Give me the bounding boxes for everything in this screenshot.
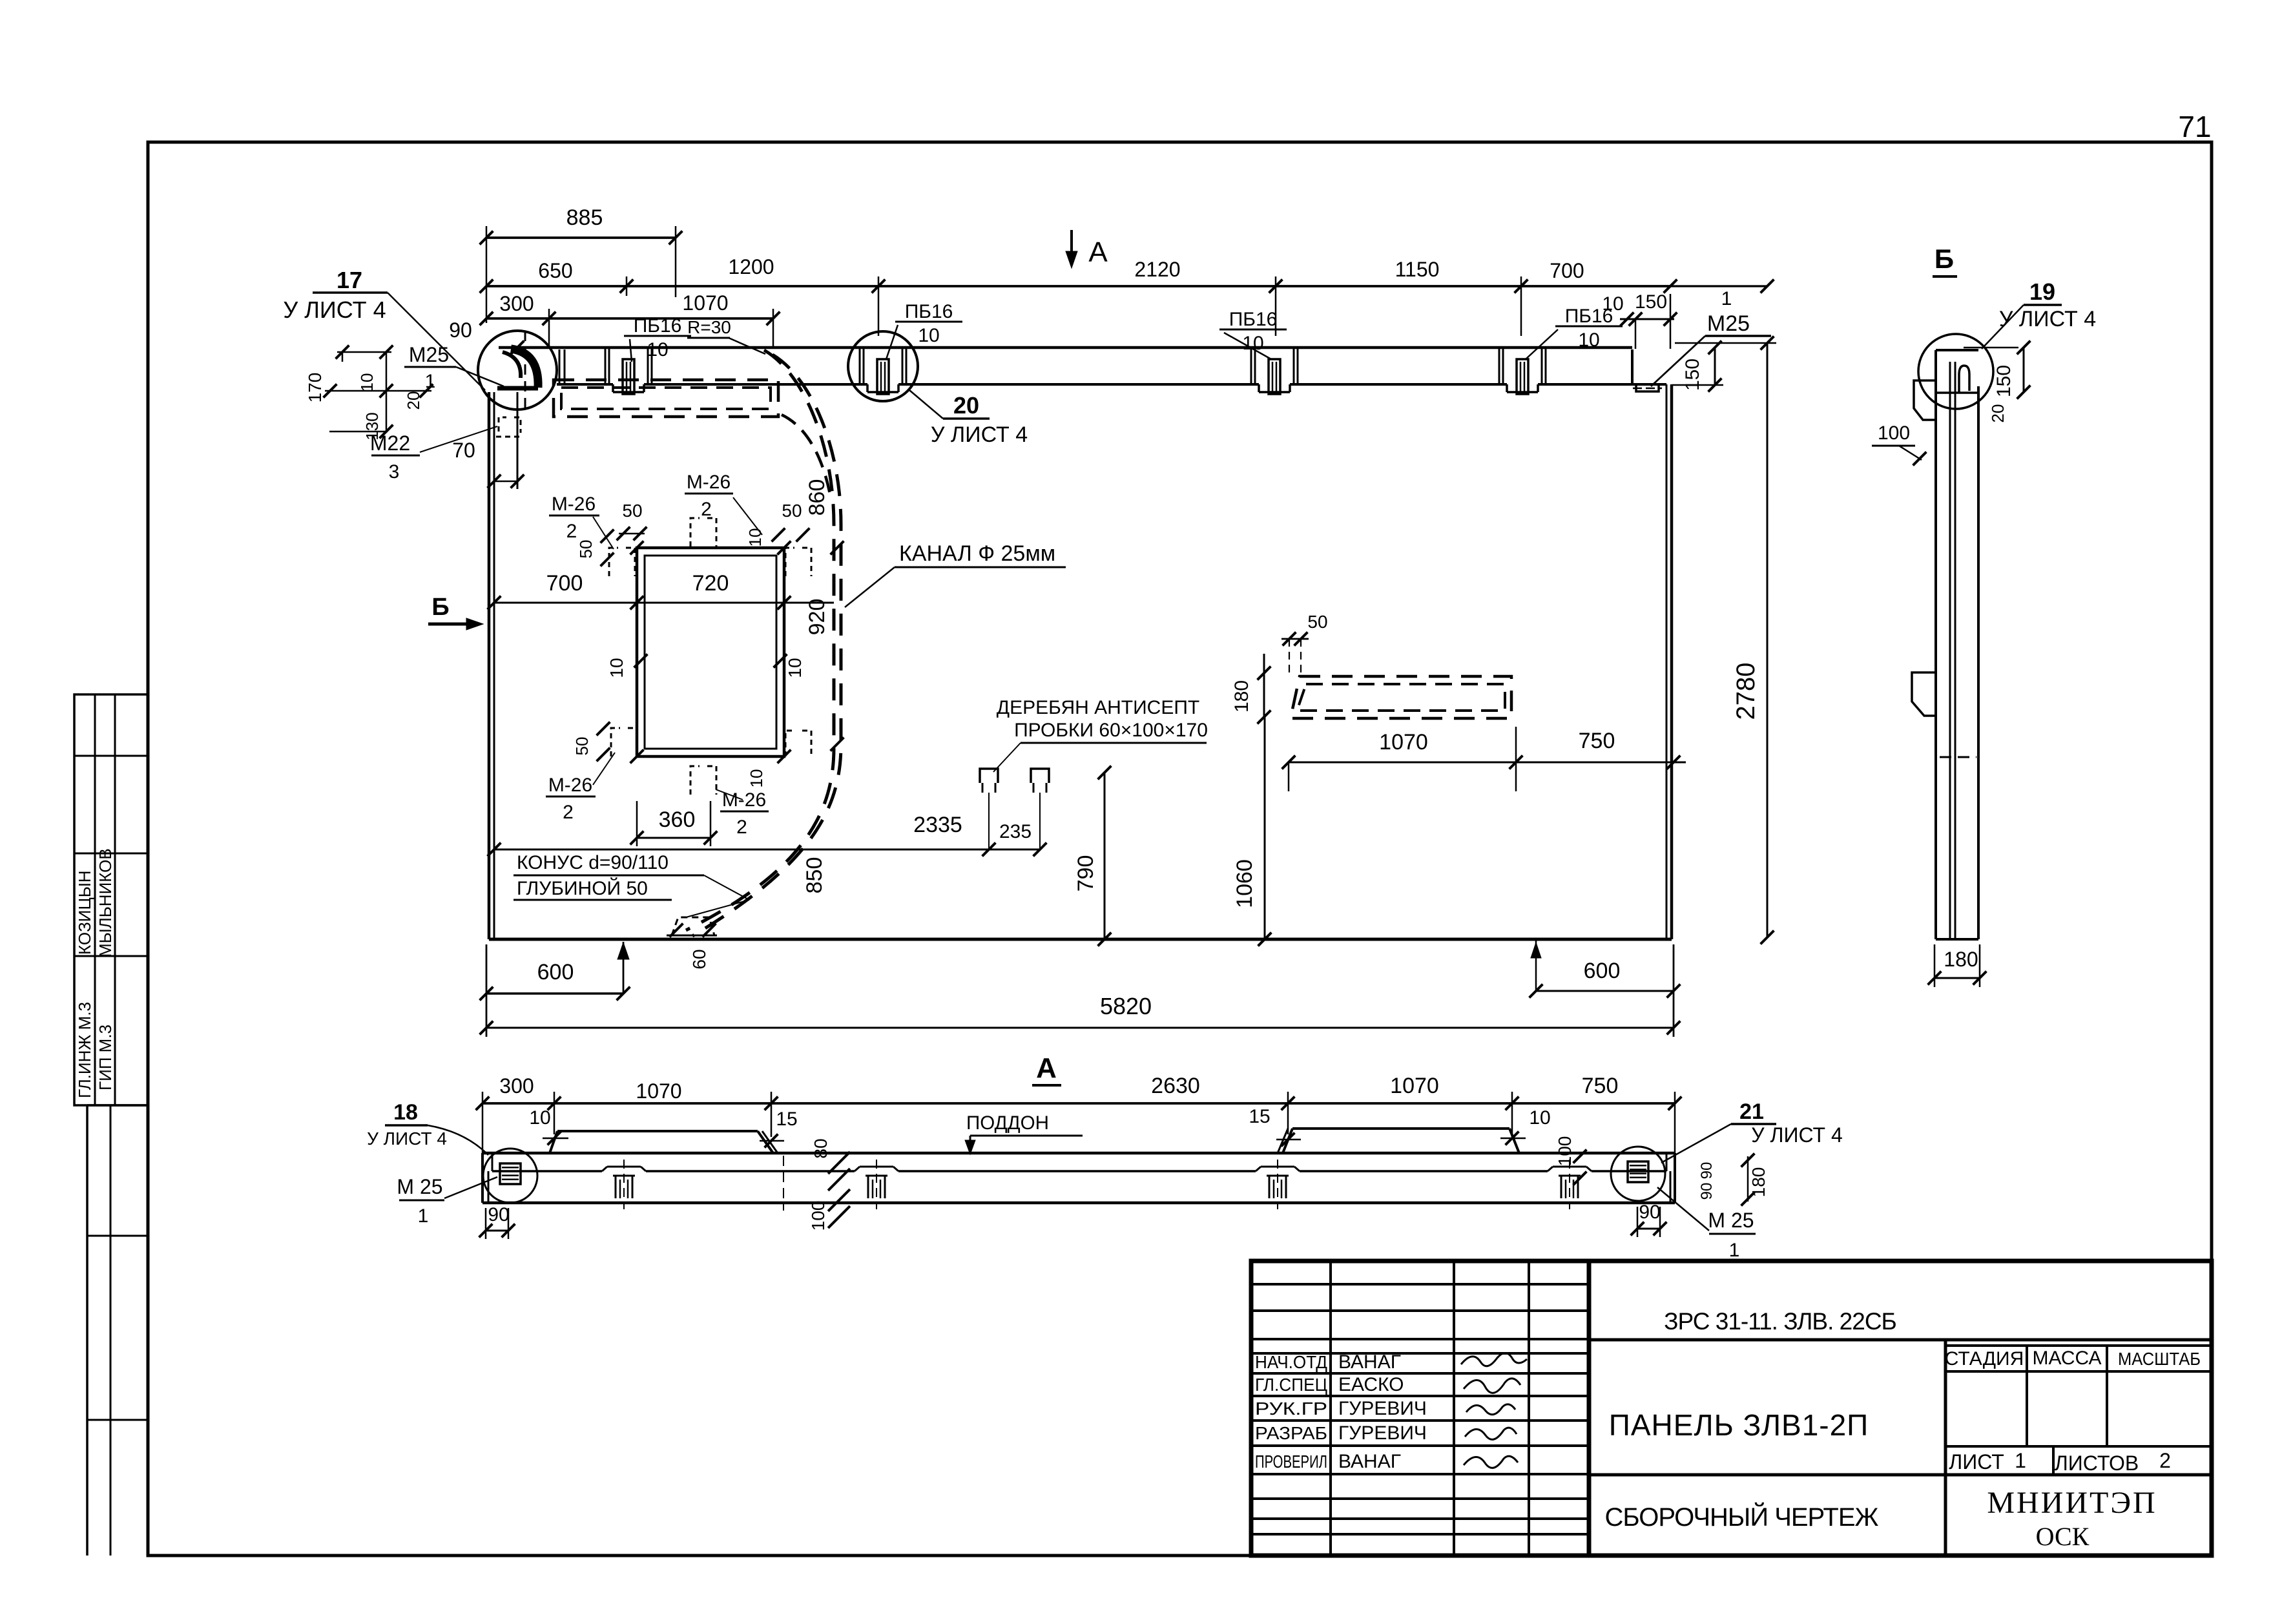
PB16 lintel studs on rim [605,349,607,384]
svg-text:М 25: М 25 [397,1175,442,1198]
wood plug 2 [1031,769,1049,783]
section B dim 150 [2023,348,2025,392]
svg-text:1070: 1070 [1390,1074,1439,1098]
svg-text:ГУРЕВИЧ: ГУРЕВИЧ [1338,1398,1427,1419]
svg-text:650: 650 [538,259,572,282]
svg-text:1: 1 [1721,288,1732,309]
section A M25 box right [1628,1161,1648,1182]
svg-text:ПБ16: ПБ16 [905,301,953,322]
page border frame [148,142,2212,1556]
svg-text:18: 18 [393,1100,418,1125]
svg-text:1150: 1150 [1395,258,1440,281]
svg-text:15: 15 [776,1109,797,1130]
svg-text:ГЛ.СПЕЦ: ГЛ.СПЕЦ [1255,1375,1327,1395]
svg-text:КОЗИЦЫН: КОЗИЦЫН [75,871,94,955]
svg-text:КОНУС d=90/110: КОНУС d=90/110 [517,852,669,873]
panel left edge [488,392,491,939]
svg-text:50: 50 [576,540,596,559]
svg-text:1: 1 [1729,1240,1740,1261]
svg-text:2335: 2335 [913,813,962,837]
svg-text:100: 100 [808,1201,828,1231]
svg-text:У ЛИСТ 4: У ЛИСТ 4 [367,1129,447,1149]
svg-text:2: 2 [736,817,747,838]
svg-text:1060: 1060 [1232,859,1257,908]
panel top edge [499,346,1632,349]
svg-text:ПАНЕЛЬ ЗЛВ1-2П: ПАНЕЛЬ ЗЛВ1-2П [1609,1408,1869,1442]
svg-text:МЫЛЬНИКОВ: МЫЛЬНИКОВ [96,848,115,957]
svg-text:10: 10 [918,325,939,346]
svg-text:600: 600 [537,960,574,984]
detail circle 21 [1611,1147,1665,1201]
svg-text:А: А [1088,236,1108,268]
svg-text:170: 170 [305,373,325,403]
svg-text:ДЕРЕБЯН АНТИСЕПТ: ДЕРЕБЯН АНТИСЕПТ [997,697,1200,718]
dim 2335 [494,849,989,851]
svg-text:ОСК: ОСК [2036,1522,2090,1551]
svg-text:У ЛИСТ 4: У ЛИСТ 4 [1999,307,2096,331]
section A right end [1674,1153,1676,1203]
svg-text:М25: М25 [409,343,449,366]
svg-text:1200: 1200 [728,255,774,278]
svg-text:2: 2 [563,802,574,823]
svg-text:10: 10 [607,658,627,678]
svg-text:300: 300 [499,292,534,315]
dim 600 left [486,992,623,994]
panel right edge [1666,384,1668,939]
svg-text:71: 71 [2178,110,2211,143]
svg-text:100: 100 [1878,422,1910,444]
svg-text:СБОРОЧНЫЙ ЧЕРТЕЖ: СБОРОЧНЫЙ ЧЕРТЕЖ [1605,1502,1879,1532]
svg-text:10: 10 [529,1107,550,1129]
section cut A arrow top [1070,230,1073,264]
svg-text:Б: Б [1935,244,1954,274]
svg-text:5820: 5820 [1100,993,1152,1019]
svg-text:90: 90 [1639,1202,1660,1223]
svg-text:У ЛИСТ 4: У ЛИСТ 4 [931,422,1028,447]
title right grid [1944,1340,1947,1556]
detail circle 18 [483,1149,537,1203]
dim 1060 vertical [1264,717,1266,939]
svg-text:300: 300 [499,1074,534,1098]
svg-text:20: 20 [1988,404,2007,423]
svg-text:1070: 1070 [1379,730,1428,755]
svg-text:70: 70 [452,439,475,462]
svg-text:720: 720 [692,571,729,596]
dim 600 right [1536,990,1674,992]
svg-text:2630: 2630 [1151,1074,1200,1098]
svg-text:1070: 1070 [636,1079,681,1103]
panel bottom edge [489,938,1672,941]
wood plug 1 [980,769,998,783]
micro dims 170-10-20-130 [337,351,391,353]
svg-text:ГЛ.ИНЖ М.3: ГЛ.ИНЖ М.3 [75,1002,94,1098]
detail circle 19 [1918,334,1993,409]
panel rim right end [1631,349,1634,384]
svg-text:НАЧ.ОТД: НАЧ.ОТД [1255,1352,1327,1372]
svg-text:10: 10 [1529,1107,1550,1129]
svg-text:10: 10 [785,658,805,678]
rim start verticals [559,349,561,384]
dim row 300-1070 [486,317,773,320]
svg-text:235: 235 [999,821,1032,842]
svg-text:21: 21 [1739,1099,1764,1124]
svg-text:2: 2 [2159,1449,2171,1472]
svg-text:1070: 1070 [682,291,728,315]
section A dim row [482,1102,1675,1105]
svg-text:80: 80 [811,1138,831,1158]
dim extension lines top [486,226,488,323]
svg-text:50: 50 [782,501,802,521]
title divider [1589,1473,2212,1477]
svg-text:ПРОВЕРИЛ: ПРОВЕРИЛ [1255,1452,1327,1472]
section A mid line [492,1170,602,1172]
section A pad 2 [1292,1127,1509,1130]
opening rect [637,548,784,756]
svg-text:ГУРЕВИЧ: ГУРЕВИЧ [1338,1422,1427,1444]
svg-text:150: 150 [1993,365,2015,397]
svg-text:10: 10 [1602,293,1623,315]
svg-text:19: 19 [2029,278,2055,305]
dashed pocket top-left [554,380,778,417]
dim 360 [637,837,711,839]
M-26 detail top-right box [785,548,811,576]
svg-text:20: 20 [404,391,423,410]
svg-text:150: 150 [1635,291,1667,313]
svg-text:50: 50 [622,501,642,521]
svg-text:ВАНАГ: ВАНАГ [1338,1451,1401,1472]
svg-text:СТАДИЯ: СТАДИЯ [1945,1348,2024,1369]
svg-text:790: 790 [1074,855,1098,892]
svg-text:10: 10 [745,528,765,547]
svg-text:20: 20 [953,392,979,419]
svg-text:3: 3 [389,461,400,483]
svg-text:150: 150 [1682,359,1703,391]
section A studs [615,1176,617,1198]
svg-text:10: 10 [1578,329,1599,351]
panel rim bottom line [557,383,613,386]
channel dashed curve [686,350,834,930]
svg-text:600: 600 [1584,959,1621,983]
svg-text:ГЛУБИНОЙ 50: ГЛУБИНОЙ 50 [517,877,648,899]
svg-text:КАНАЛ Ф 25мм: КАНАЛ Ф 25мм [899,541,1055,566]
signatures [1461,1353,1527,1366]
svg-text:1: 1 [2015,1449,2026,1472]
svg-text:50: 50 [1307,612,1327,632]
svg-text:2: 2 [566,521,577,542]
svg-text:ВАНАГ: ВАНАГ [1338,1351,1401,1373]
svg-text:МАССА: МАССА [2032,1348,2101,1369]
svg-text:М-26: М-26 [552,494,596,515]
dim 2780 [1767,343,1769,937]
svg-text:700: 700 [546,571,583,596]
svg-text:РУК.ГР: РУК.ГР [1255,1399,1327,1419]
svg-text:920: 920 [805,599,829,636]
svg-text:90: 90 [449,318,472,342]
svg-text:860: 860 [805,479,829,516]
svg-text:10: 10 [647,339,668,360]
svg-text:1: 1 [418,1205,429,1227]
svg-text:М22: М22 [370,432,410,455]
svg-text:У ЛИСТ 4: У ЛИСТ 4 [283,297,386,323]
dashed pocket right [1291,676,1511,718]
svg-text:МНИИТЭП: МНИИТЭП [1987,1486,2157,1520]
panel corner step line [517,392,519,489]
svg-text:90: 90 [1698,1162,1716,1180]
pocket dim 180 [1263,654,1265,717]
section A dim 90 right [1637,1228,1660,1230]
title block left grid [1251,1261,2212,1556]
dim 150 corner [1714,348,1716,385]
left stamp lower box [86,1105,88,1556]
svg-text:Б: Б [431,594,449,621]
svg-text:700: 700 [1550,259,1584,282]
svg-text:10: 10 [357,373,377,392]
detail circle 20 [848,331,918,401]
M-26 detail bot-right box [785,731,811,756]
dim 235 [989,849,1040,851]
svg-text:ЛИСТ: ЛИСТ [1949,1450,2004,1473]
svg-text:60: 60 [689,949,709,969]
section B panel strip [1936,349,1978,351]
svg-text:10: 10 [1242,333,1263,354]
svg-text:А: А [1036,1052,1057,1084]
left stamp upper box [74,694,148,1105]
svg-text:ПБ16: ПБ16 [634,315,682,337]
conus dashed detail [672,917,714,935]
svg-text:90: 90 [488,1204,509,1225]
section A M25 box left [500,1163,521,1184]
svg-text:М 25: М 25 [1708,1209,1754,1232]
svg-text:ЗРС 31-11. ЗЛВ. 22СБ: ЗРС 31-11. ЗЛВ. 22СБ [1664,1308,1896,1335]
svg-text:885: 885 [566,205,603,230]
svg-text:90: 90 [1698,1183,1716,1200]
svg-text:ГИП М.3: ГИП М.3 [96,1025,115,1090]
svg-text:R=30: R=30 [687,317,731,337]
svg-text:ПОДДОН: ПОДДОН [966,1112,1049,1134]
svg-text:ПРОБКИ 60×100×170: ПРОБКИ 60×100×170 [1014,720,1208,741]
svg-text:ПБ16: ПБ16 [1229,309,1278,330]
title line under code [1589,1338,2212,1342]
svg-text:ЕАСКО: ЕАСКО [1338,1374,1404,1395]
svg-text:180: 180 [1748,1167,1769,1198]
section A pad 1 [557,1130,758,1132]
section A body top [482,1152,1675,1155]
svg-text:М-26: М-26 [548,775,592,796]
detail circle 17 top-left corner [478,331,557,410]
M25 top-right anchor [1636,385,1659,391]
svg-text:РАЗРАБ: РАЗРАБ [1255,1423,1327,1443]
dim 720 opening [637,602,834,604]
svg-text:10: 10 [747,769,766,788]
svg-text:М25: М25 [1707,311,1750,336]
svg-text:М-26: М-26 [722,789,766,811]
svg-text:50: 50 [572,737,592,756]
dim 5820 [486,1027,1674,1029]
svg-text:У ЛИСТ 4: У ЛИСТ 4 [1751,1123,1843,1147]
dim 790 vertical [1104,773,1106,939]
opening corner ticks [630,541,644,555]
dim 1070-750 internal [1289,762,1686,764]
svg-text:180: 180 [1944,948,1978,971]
section A ext lines [482,1092,484,1156]
svg-text:100: 100 [1555,1136,1575,1167]
M22 anchor dashed box [499,417,521,433]
svg-text:750: 750 [1579,729,1615,753]
svg-text:750: 750 [1582,1074,1619,1098]
svg-text:2780: 2780 [1732,663,1760,720]
dim row 650-1200-2120-1150-700 [486,285,1670,287]
svg-text:2120: 2120 [1134,258,1180,281]
svg-text:МАСШТАБ: МАСШТАБ [2118,1349,2201,1369]
svg-text:17: 17 [337,267,362,293]
svg-text:180: 180 [1231,680,1252,713]
svg-text:360: 360 [659,807,696,832]
section A body bottom [482,1202,1675,1205]
dim 10-150 top right [1620,318,1674,320]
svg-text:850: 850 [802,857,827,894]
section B dim 180 [1935,977,1980,979]
svg-text:15: 15 [1249,1106,1270,1127]
svg-text:2: 2 [701,499,712,520]
dim 700 opening [494,602,637,604]
svg-text:М-26: М-26 [687,472,731,493]
section A centerline dash [783,1156,784,1211]
section A dim 90 left [486,1230,508,1232]
section A left end [481,1153,484,1203]
dim 885 [486,236,676,239]
svg-text:ЛИСТОВ: ЛИСТОВ [2055,1452,2139,1475]
